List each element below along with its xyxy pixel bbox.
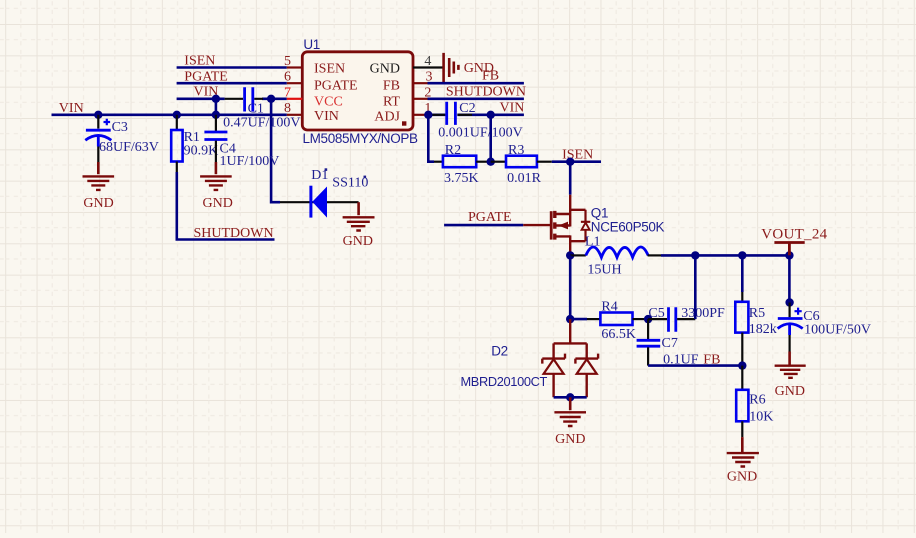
wire PGATE stub to pin 6 [177, 82, 287, 85]
pin 4 GND [370, 54, 443, 77]
net label PGATE (right) [468, 210, 512, 225]
wire vertical C2-right to R2/R3 node [489, 115, 492, 162]
wire ISEN node down to Q1 [569, 162, 572, 195]
op-amp U1 LM5085MYX/NOPB body [302, 37, 418, 146]
svg-text:ADJ: ADJ [374, 110, 400, 125]
node R5/R6/FB junction [738, 361, 746, 369]
svg-text:4: 4 [424, 54, 431, 69]
svg-text:GND: GND [343, 234, 373, 249]
net label ISEN (left stub) [184, 54, 215, 69]
svg-text:6: 6 [284, 70, 291, 85]
node pin7 row / vertical link [212, 95, 220, 103]
diode D2 MBRD20100CT [461, 319, 599, 397]
capacitor C6 (electrolytic 100UF/50V) [778, 303, 871, 352]
svg-text:R6: R6 [749, 392, 765, 407]
node C6 top [785, 298, 793, 306]
svg-text:68UF/63V: 68UF/63V [99, 140, 159, 155]
svg-text:C3: C3 [112, 120, 128, 135]
svg-text:GND: GND [727, 469, 757, 484]
node R2/R3/C2 junction [487, 158, 495, 166]
svg-text:0.01R: 0.01R [507, 171, 541, 186]
svg-text:C5: C5 [648, 306, 664, 321]
svg-text:LM5085MYX/NOPB: LM5085MYX/NOPB [303, 131, 418, 146]
pin 5 ISEN [284, 54, 345, 77]
capacitor C5 [648, 306, 725, 332]
svg-text:R3: R3 [508, 143, 524, 158]
node D2 common junction [566, 393, 574, 401]
node VIN/C4 junction [212, 111, 220, 119]
ground GND under R6 [727, 437, 759, 484]
wire ISEN stub to pin 5 [177, 66, 287, 69]
svg-text:0.47UF/100V: 0.47UF/100V [223, 116, 300, 131]
svg-text:10K: 10K [749, 410, 773, 425]
svg-text:15UH: 15UH [587, 262, 621, 277]
svg-text:SS110: SS110 [332, 175, 368, 190]
wire ISEN right [552, 160, 601, 163]
svg-text:C2: C2 [459, 101, 475, 116]
svg-text:D2: D2 [491, 343, 508, 358]
wire SHUTDOWN from pin 2 [428, 98, 524, 101]
ground GND under C4 [200, 162, 233, 211]
wire Q1 drain down to R4/D2 [569, 255, 572, 319]
net label VIN (right) [500, 101, 525, 116]
ground GND under D2 [554, 397, 586, 447]
net label FB (bottom) [703, 353, 720, 368]
svg-text:L1: L1 [585, 235, 601, 250]
svg-text:R4: R4 [601, 299, 617, 314]
svg-text:FB: FB [482, 68, 499, 83]
wire PGATE to Q1 gate [444, 224, 523, 227]
svg-text:R2: R2 [445, 143, 461, 158]
svg-text:VCC: VCC [314, 95, 343, 110]
capacitor C2 [438, 101, 522, 141]
wire vertical C1-right down to D1 cathode [271, 99, 280, 202]
node R4/D2 junction [566, 315, 574, 323]
svg-text:66.5K: 66.5K [601, 327, 636, 342]
svg-text:GND: GND [370, 62, 400, 77]
svg-text:C7: C7 [662, 336, 678, 351]
svg-text:VOUT_24: VOUT_24 [761, 227, 827, 243]
svg-text:0.001UF/100V: 0.001UF/100V [438, 126, 522, 141]
net label VIN [59, 101, 84, 116]
net label ISEN (right) [562, 148, 593, 163]
pin 7 VCC [284, 85, 343, 109]
resistor R5 [735, 255, 777, 365]
capacitor C7 [637, 319, 699, 367]
svg-text:182k: 182k [749, 322, 777, 337]
ground GND under C6 [775, 352, 806, 399]
svg-text:100UF/50V: 100UF/50V [804, 323, 871, 338]
svg-text:PGATE: PGATE [468, 210, 512, 225]
wire pin7 row [177, 98, 287, 101]
net label FB [482, 68, 499, 83]
svg-text:U1: U1 [303, 37, 320, 52]
svg-text:RT: RT [383, 95, 400, 110]
node output/C5 branch [691, 251, 699, 259]
node ISEN / Q1 source junction [566, 158, 574, 166]
wire FB from pin 3 [428, 82, 524, 85]
capacitor C4 [204, 115, 279, 169]
node output/VOUT branch [785, 251, 793, 259]
svg-text:GND: GND [203, 196, 233, 211]
net label SHUTDOWN (left) [194, 226, 274, 241]
svg-text:SHUTDOWN: SHUTDOWN [194, 226, 274, 241]
power ground at pin 4 [444, 53, 494, 82]
transistor Q1 NCE60P50K [523, 195, 664, 256]
wire D2 anodes common [554, 396, 587, 399]
node output/R5 branch [738, 251, 746, 259]
svg-text:7: 7 [284, 85, 291, 100]
resistor R4 [570, 299, 648, 342]
wire pin 1 row [428, 114, 524, 117]
pin 1 ADJ [374, 101, 431, 125]
wire vertical link pin7-row to VIN rail [215, 99, 218, 115]
pin 8 VIN [284, 101, 339, 124]
node Q1 drain / L1 junction [566, 251, 574, 259]
svg-text:GND: GND [555, 432, 585, 447]
resistor R2 [434, 143, 491, 186]
resistor R3 [491, 143, 552, 186]
power port VOUT_24 [761, 227, 827, 256]
node pin1 / C2 left junction [424, 111, 432, 119]
pin 3 FB [383, 70, 433, 94]
net label PGATE (left stub) [184, 69, 228, 84]
wire FB row [648, 364, 742, 367]
svg-text:VIN: VIN [314, 109, 339, 124]
svg-text:3300PF: 3300PF [681, 306, 725, 321]
svg-text:1UF/100V: 1UF/100V [220, 154, 280, 169]
svg-text:C1: C1 [248, 102, 264, 117]
capacitor C3 (electrolytic 68UF/63V) [85, 115, 159, 162]
wire vertical pin1 to R2 [428, 115, 434, 162]
svg-text:90.9K: 90.9K [184, 143, 219, 158]
node VIN/C3 junction [94, 111, 102, 119]
svg-text:FB: FB [383, 79, 400, 94]
wire C5 right up to output rail [694, 255, 697, 319]
svg-text:GND: GND [775, 384, 805, 399]
svg-text:PGATE: PGATE [314, 79, 358, 94]
pin 6 PGATE [284, 70, 358, 94]
svg-text:SHUTDOWN: SHUTDOWN [446, 85, 526, 100]
svg-text:8: 8 [284, 101, 291, 116]
svg-text:ISEN: ISEN [314, 62, 345, 77]
svg-text:VIN: VIN [500, 101, 525, 116]
ground GND right of D1 [343, 202, 375, 249]
node C1 right / pin7 junction [267, 95, 275, 103]
wire SHUTDOWN from R1 [177, 172, 275, 240]
svg-text:R5: R5 [749, 306, 765, 321]
net label VIN (pin 7 row) [194, 84, 219, 99]
resistor R1 [171, 115, 218, 172]
node C2 right junction [487, 111, 495, 119]
capacitor C1 [223, 87, 300, 130]
wire output rail [661, 254, 789, 257]
svg-text:GND: GND [83, 196, 113, 211]
resistor R6 [736, 366, 773, 438]
inductor L1 15UH [570, 235, 661, 278]
svg-text:NCE60P50K: NCE60P50K [591, 219, 665, 234]
svg-text:MBRD20100CT: MBRD20100CT [461, 374, 548, 389]
pin 2 RT [383, 85, 431, 109]
wire main VIN rail [52, 114, 287, 117]
node R4/C5/C7 junction [644, 315, 652, 323]
ground GND under C3 [83, 162, 115, 211]
node VIN/R1 junction [173, 111, 181, 119]
svg-text:3.75K: 3.75K [444, 171, 479, 186]
svg-text:5: 5 [284, 54, 291, 69]
net label SHUTDOWN (right) [446, 85, 526, 100]
wire VOUT node down to C6 [788, 255, 791, 302]
diode D1 SS110 [280, 168, 368, 217]
